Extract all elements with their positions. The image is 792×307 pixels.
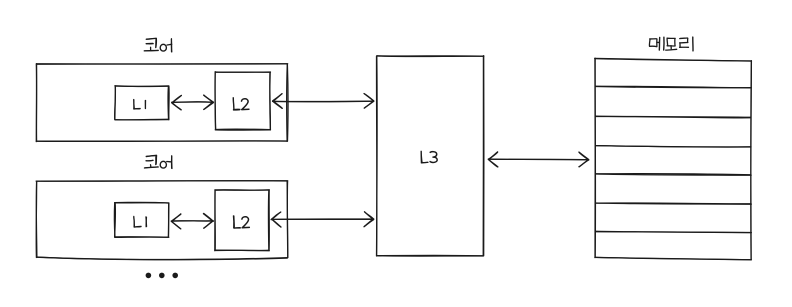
memory row lines xyxy=(595,86,751,232)
arrow L1-L2 (core 1) xyxy=(172,95,214,110)
L2 cache box (core 1) xyxy=(215,72,270,130)
label 메모리 (memory) xyxy=(649,37,693,51)
core box 1 xyxy=(36,64,288,142)
L1 cache box (core 1) xyxy=(115,86,170,120)
L1 cache box (core 2) xyxy=(114,202,168,237)
label L1 (core 2) xyxy=(134,216,147,227)
label 코어 (core 2) xyxy=(144,155,172,168)
label L1 (core 1) xyxy=(134,100,146,110)
arrow L2-L3 (core 2) xyxy=(271,212,374,227)
core box 2 xyxy=(36,181,288,260)
arrow L3-memory xyxy=(488,152,589,167)
arrow L1-L2 (core 2) xyxy=(171,213,213,229)
memory box xyxy=(595,58,752,260)
label 코어 (core 1) xyxy=(144,38,172,52)
arrow L2-L3 (core 1) xyxy=(273,94,374,109)
label L2 (core 1) xyxy=(233,98,249,110)
L2 cache box (core 2) xyxy=(215,190,270,251)
label L3 xyxy=(421,151,437,163)
L3 cache box xyxy=(376,56,483,256)
ellipsis dots (more cores) xyxy=(146,273,178,279)
label L2 (core 2) xyxy=(233,216,249,228)
